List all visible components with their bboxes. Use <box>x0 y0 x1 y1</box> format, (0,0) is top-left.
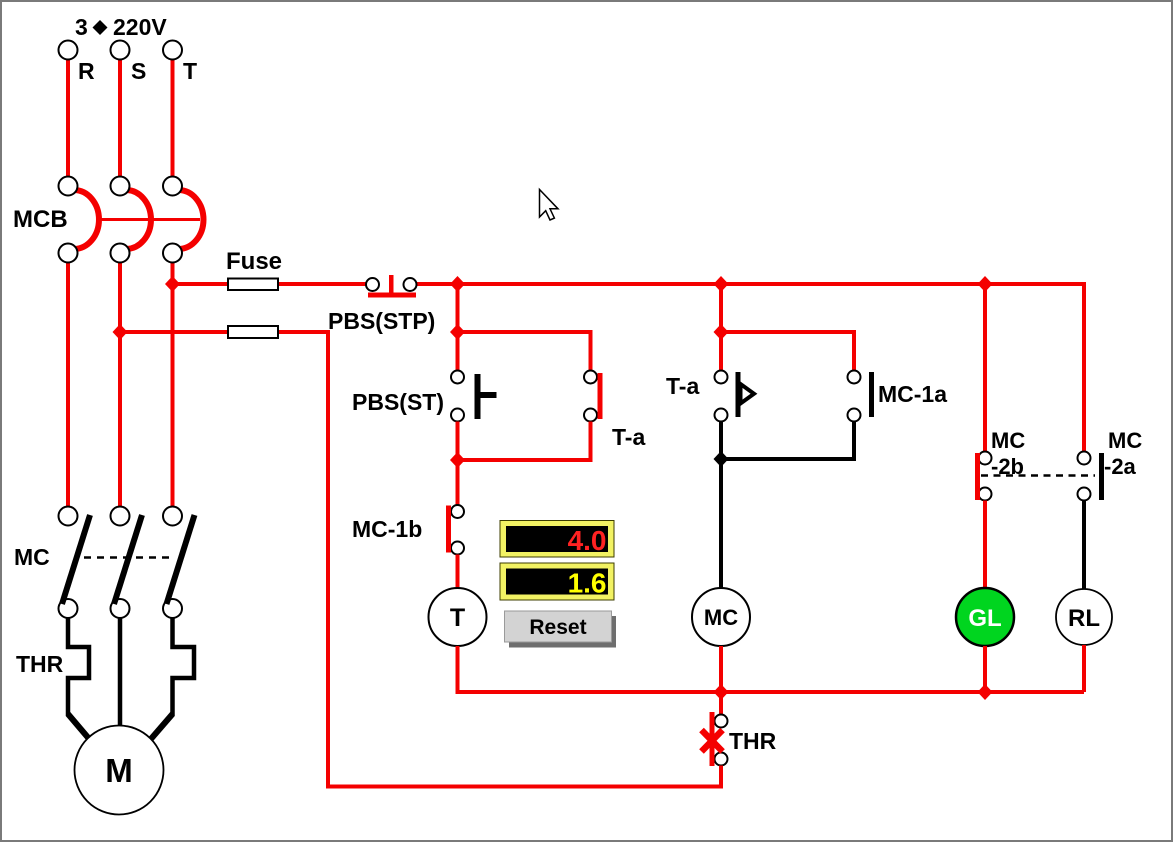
contact MC-2b terminal top <box>979 452 992 465</box>
wire R MCB to MC <box>66 263 70 508</box>
svg-text:T: T <box>450 604 465 632</box>
svg-text:MCB: MCB <box>13 206 68 233</box>
svg-text:3: 3 <box>75 14 88 40</box>
contact MC-1b terminal top <box>451 505 464 518</box>
contact THR trip bar <box>710 712 715 766</box>
svg-text:220V: 220V <box>113 14 167 40</box>
wire MC-1a bottom black <box>721 422 854 460</box>
svg-text:4.0: 4.0 <box>568 525 607 556</box>
timer coil T <box>429 588 487 646</box>
motor M <box>75 726 164 815</box>
pushbutton PBS(STP) bridge bar <box>368 293 416 298</box>
contact THR trip X mark <box>702 730 723 752</box>
contactor MC main upper terminal 3 <box>163 507 182 526</box>
wire phase 2 to motor <box>118 618 123 728</box>
terminal T <box>163 41 182 60</box>
svg-text:-2a: -2a <box>1104 454 1137 479</box>
lamp RL <box>1056 589 1112 645</box>
wire S MCB to MC <box>118 263 122 508</box>
breaker MCB pole 3 arc <box>179 190 204 249</box>
svg-text:R: R <box>78 58 95 84</box>
node junction C4 on bottom rail <box>714 684 729 700</box>
wire T phase top <box>171 60 175 178</box>
MCB pole3 top terminal <box>163 177 182 196</box>
svg-text:1.6: 1.6 <box>568 568 607 599</box>
svg-text:MC: MC <box>1108 428 1142 453</box>
wire MC-2a to RL black <box>1082 501 1086 592</box>
svg-text:Reset: Reset <box>529 616 586 639</box>
contact MC-1a terminal bottom <box>848 409 861 422</box>
contact T-a closed terminal bottom <box>584 409 597 422</box>
wire T-a bottom to junction A3 <box>458 422 591 461</box>
contact T-a timed triangle <box>741 384 755 404</box>
wire col A down from L1 <box>456 284 460 371</box>
node junction C2 <box>714 324 729 340</box>
wire bottom rail to THR contact <box>719 692 723 715</box>
pushbutton PBS(STP) actuator stem <box>389 275 394 294</box>
node junction S-phase / L2 <box>113 324 128 340</box>
svg-text:THR: THR <box>729 728 777 754</box>
wire col E down from L1 <box>983 284 987 452</box>
contact T-a timed bar <box>736 372 741 417</box>
svg-text:T-a: T-a <box>612 424 645 450</box>
contact THR trip terminal bottom <box>715 753 728 766</box>
wire R phase top <box>66 60 70 178</box>
svg-text:S: S <box>131 58 146 84</box>
wire GL to bottom rail <box>983 646 987 692</box>
svg-text:MC: MC <box>14 544 50 570</box>
fuse F2 body <box>228 326 278 338</box>
wire timer coil to bottom rail <box>458 646 1085 692</box>
contact T-a closed bar <box>598 373 603 419</box>
contactor MC main upper terminal 1 <box>59 507 78 526</box>
svg-text:PBS(STP): PBS(STP) <box>328 308 435 334</box>
wire branch C2 to col D <box>721 332 854 371</box>
display timer elapsed 1.6 <box>500 563 614 600</box>
fuse F1 body <box>228 279 278 291</box>
pushbutton PBS(STP) terminal right <box>404 278 417 291</box>
lamp GL <box>956 588 1014 646</box>
wire col C down from L1 <box>719 284 723 371</box>
wire fuse line 1 right (control bus L1) <box>415 282 1084 286</box>
terminal R <box>59 41 78 60</box>
wire fuse line 2 <box>120 330 328 334</box>
pushbutton PBS(STP) terminal left <box>366 278 379 291</box>
svg-text:MC: MC <box>991 428 1025 453</box>
svg-text:MC-1b: MC-1b <box>352 516 422 542</box>
node junction C3 black <box>714 451 729 467</box>
wire slant phase1 to motor <box>68 714 96 747</box>
svg-text:THR: THR <box>16 651 64 677</box>
contact MC-2a bar <box>1099 453 1104 500</box>
wire col F down from L1 <box>1082 282 1086 452</box>
label 3-phase 220V <box>75 14 167 40</box>
contact T-a closed terminal top <box>584 371 597 384</box>
contactor MC main lower terminal 3 <box>163 599 182 618</box>
svg-text:PBS(ST): PBS(ST) <box>352 389 444 415</box>
svg-text:MC-1a: MC-1a <box>878 381 947 407</box>
heater THR phase 3 <box>173 618 195 716</box>
svg-text:M: M <box>105 752 133 789</box>
contact MC-1b bar <box>446 506 451 553</box>
contactor MC lever 1 <box>62 515 90 604</box>
coil MC <box>692 588 750 646</box>
contact THR trip terminal top <box>715 715 728 728</box>
contactor MC lever 3 <box>167 515 195 604</box>
breaker MCB pole 1 arc <box>74 190 99 249</box>
heater THR phase 1 <box>68 618 89 716</box>
contact MC-2b terminal bottom <box>979 488 992 501</box>
contact T-a timed terminal bottom <box>715 409 728 422</box>
svg-text:RL: RL <box>1068 605 1100 632</box>
mouse cursor <box>540 190 559 221</box>
contactor MC main upper terminal 2 <box>111 507 130 526</box>
wire left return vertical <box>326 330 330 789</box>
contactor MC main lower terminal 2 <box>111 599 130 618</box>
node junction T-phase / L1 <box>165 276 180 292</box>
MCB pole1 top terminal <box>59 177 78 196</box>
contact MC-1a terminal top <box>848 371 861 384</box>
pushbutton PBS(ST) actuator stub <box>480 392 497 398</box>
breaker MCB bar <box>96 218 200 221</box>
contactor MC main lower terminal 1 <box>59 599 78 618</box>
contact MC-1a bar <box>869 372 874 417</box>
wire MC coil to bottom rail <box>719 646 723 692</box>
node junction A2 <box>450 324 465 340</box>
node junction A3 <box>450 452 465 468</box>
wire RL to bottom rail <box>1082 645 1086 692</box>
wire junction C3 to MC coil <box>719 459 723 590</box>
wire MC-1b to timer coil <box>456 555 460 591</box>
contact MC-1b terminal bottom <box>451 542 464 555</box>
wire S phase top <box>118 60 122 178</box>
wire fuse line 1 left <box>173 282 368 286</box>
svg-text:MC: MC <box>704 605 738 630</box>
button Reset <box>505 611 617 648</box>
display timer setpoint 4.0 <box>500 521 614 558</box>
MCB pole2 top terminal <box>111 177 130 196</box>
pushbutton PBS(ST) terminal top <box>451 371 464 384</box>
pushbutton PBS(ST) actuator bar <box>475 374 481 419</box>
contactor MC lever 2 <box>114 515 142 604</box>
wire branch A2 to col B <box>458 332 591 371</box>
svg-text:GL: GL <box>968 605 1001 632</box>
contact MC-2b bar <box>975 453 980 500</box>
breaker MCB pole 2 arc <box>126 190 151 249</box>
MCB pole3 bottom terminal <box>163 244 182 263</box>
node junction A on L1 <box>450 276 465 292</box>
wire bottom return horizontal <box>326 785 721 789</box>
contact T-a timed terminal top <box>715 371 728 384</box>
terminal S <box>111 41 130 60</box>
wire PBS(ST) bottom to junction A3 <box>456 422 460 506</box>
wire slant phase3 to motor <box>144 714 173 747</box>
pushbutton PBS(ST) terminal bottom <box>451 409 464 422</box>
node junction E1 on L1 <box>978 276 993 292</box>
svg-text:Fuse: Fuse <box>226 248 282 275</box>
contact MC-2a terminal bottom <box>1078 488 1091 501</box>
wire MC-2b to GL <box>983 501 987 591</box>
node junction C1 on L1 <box>714 276 729 292</box>
contact MC-2a terminal top <box>1078 452 1091 465</box>
wire T-a bottom black <box>719 422 723 460</box>
node junction E2 on bottom rail <box>978 684 993 700</box>
wire T MCB to MC <box>171 263 175 508</box>
wire THR bottom to return <box>719 766 723 789</box>
svg-text:T-a: T-a <box>666 373 699 399</box>
MCB pole2 bottom terminal <box>111 244 130 263</box>
MCB pole1 bottom terminal <box>59 244 78 263</box>
svg-text:T: T <box>183 58 197 84</box>
mechanical link dashed <box>981 474 1095 477</box>
contactor MC link dashed <box>84 556 172 559</box>
